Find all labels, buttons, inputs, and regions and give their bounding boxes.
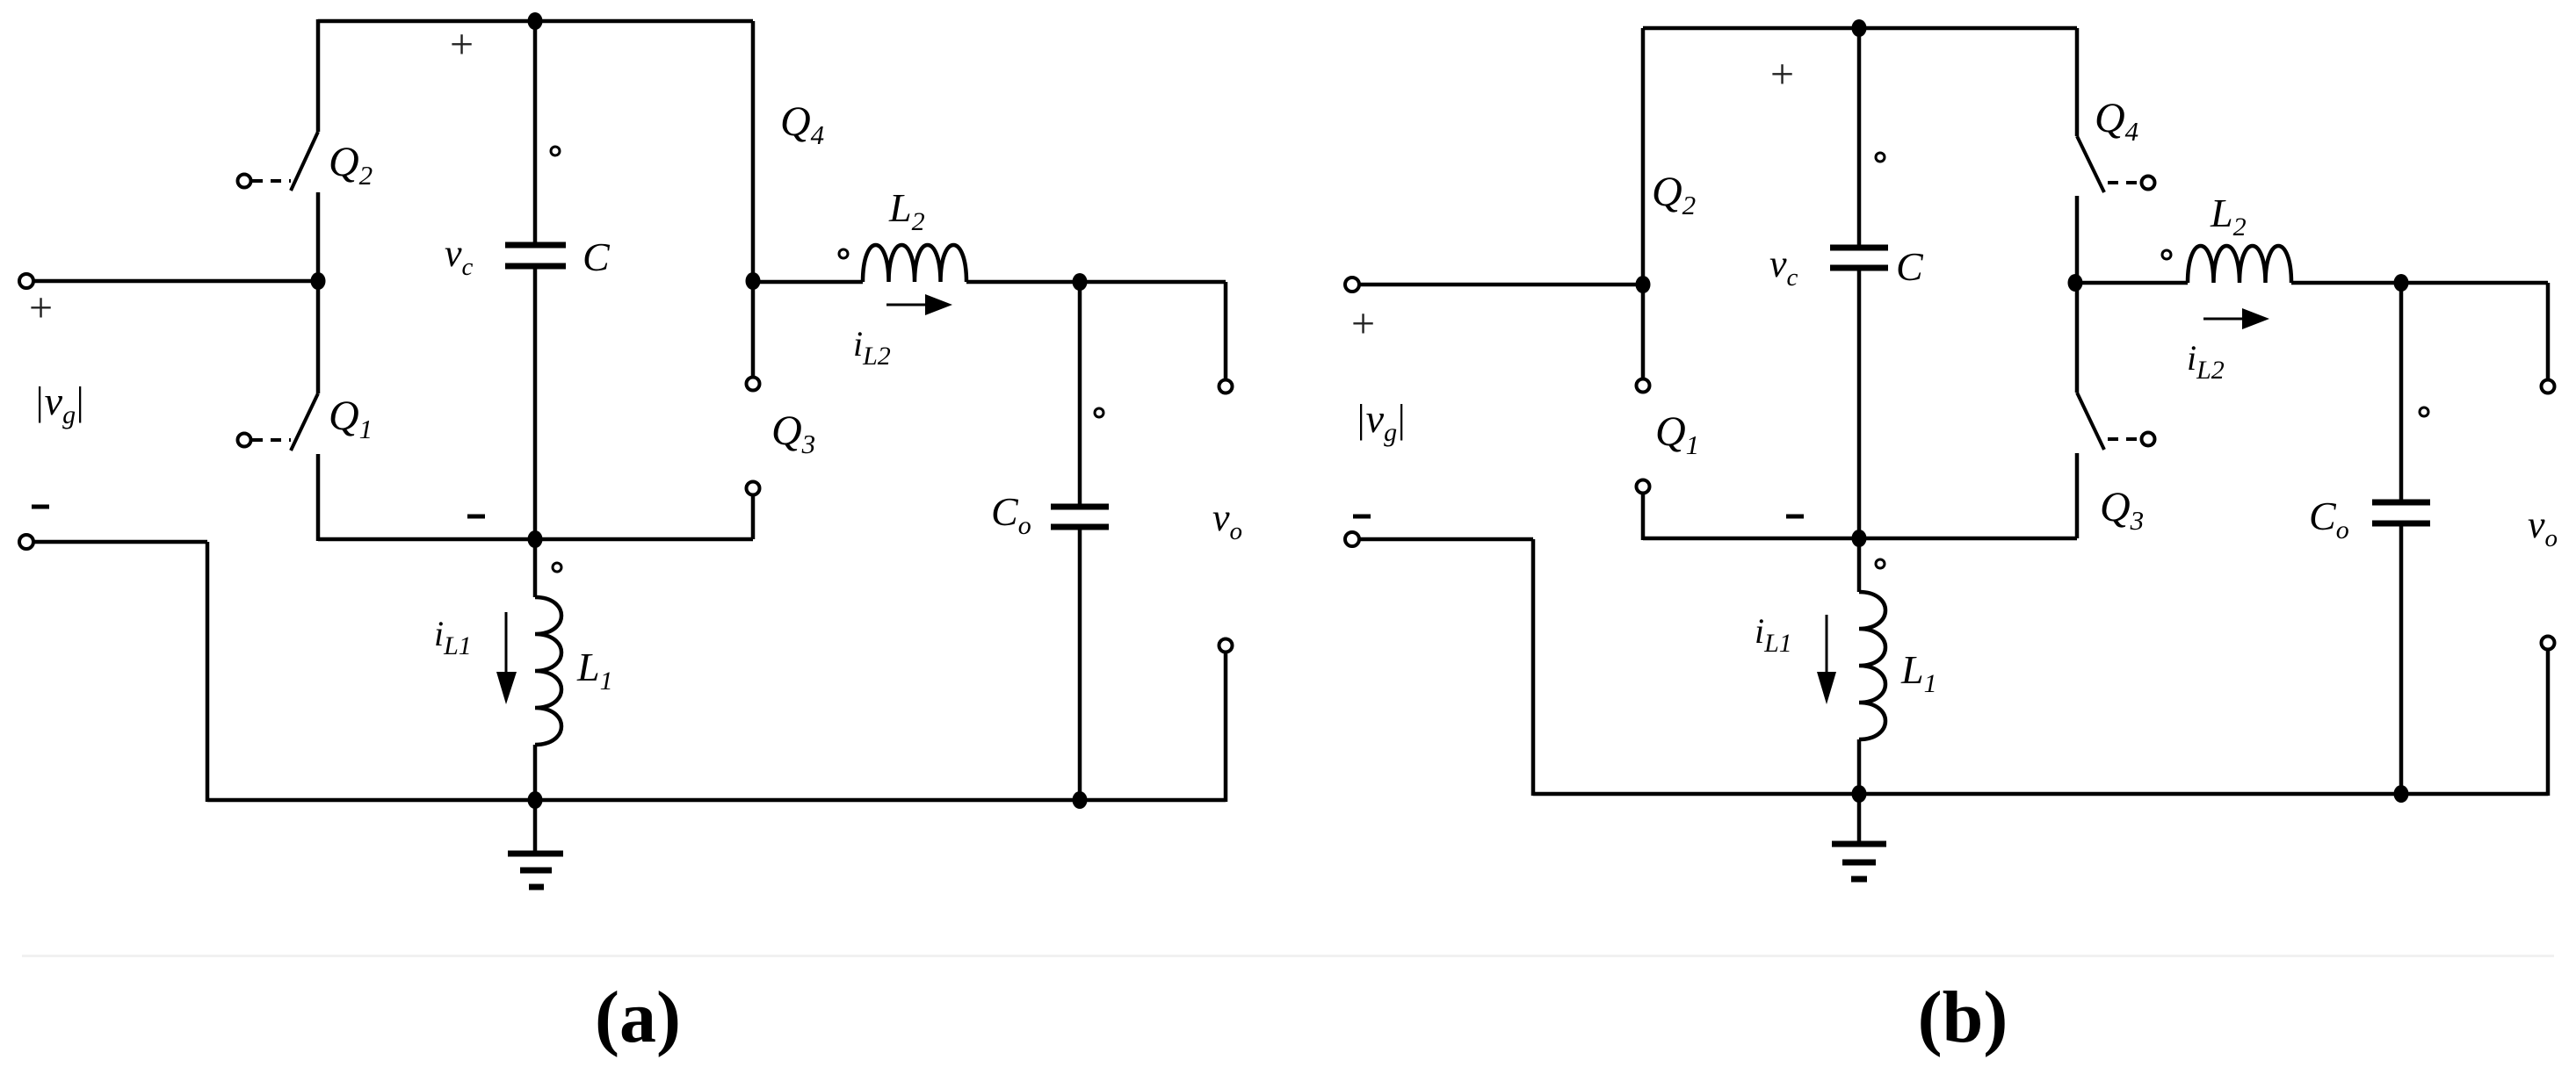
- svg-text:(b): (b): [1918, 977, 2008, 1058]
- svg-text:+: +: [1351, 300, 1375, 347]
- svg-text:+: +: [29, 285, 53, 331]
- svg-text:C: C: [1896, 244, 1924, 289]
- svg-text:+: +: [450, 21, 474, 68]
- svg-text:|: |: [74, 378, 85, 423]
- svg-text:|: |: [1395, 396, 1407, 441]
- svg-text:+: +: [1770, 51, 1794, 97]
- svg-text:C: C: [582, 234, 611, 279]
- svg-text:(a): (a): [595, 977, 681, 1058]
